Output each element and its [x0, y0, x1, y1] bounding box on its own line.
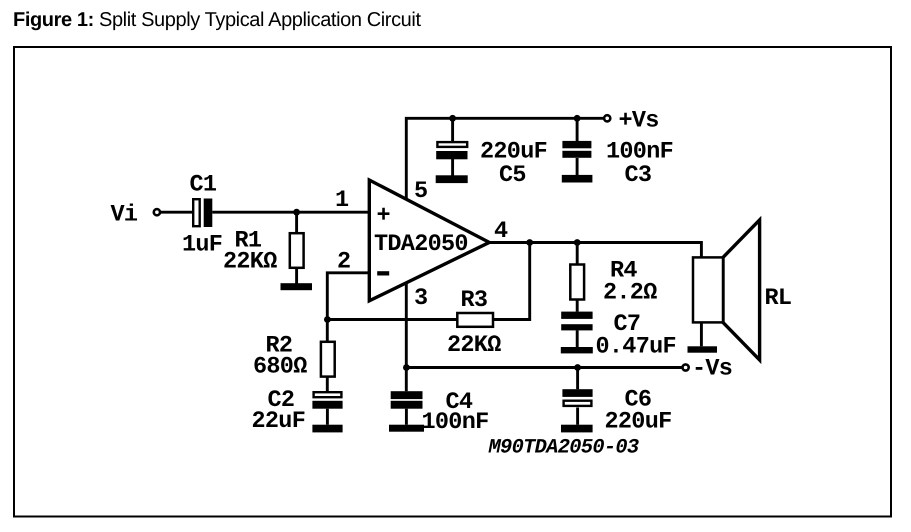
- wire R1 leads: [295, 212, 298, 283]
- svg-text:Figure 1: Split Supply Typical: Figure 1: Split Supply Typical Applicati…: [13, 9, 421, 31]
- svg-text:M90TDA2050-03: M90TDA2050-03: [488, 437, 639, 460]
- svg-text:3: 3: [414, 285, 427, 312]
- junction feedback node A: [324, 316, 331, 323]
- wire R4 leads: [576, 243, 579, 348]
- svg-text:R3: R3: [461, 287, 488, 314]
- -Vs rail: [406, 366, 682, 369]
- ground below C6: [561, 425, 593, 433]
- wire speaker to ground: [700, 322, 703, 346]
- capacitor C1: [193, 199, 212, 228]
- speaker RL driver box: [693, 257, 723, 322]
- resistor R3: [457, 313, 493, 327]
- svg-text:TDA2050: TDA2050: [374, 231, 468, 258]
- svg-text:2.2Ω: 2.2Ω: [603, 280, 657, 307]
- wire R2 leads: [326, 320, 329, 392]
- speaker RL horn: [723, 220, 760, 360]
- capacitor C7: [561, 312, 592, 331]
- label - input: [377, 271, 389, 275]
- wire input terminal to C1: [161, 211, 193, 214]
- junction input node: [293, 209, 300, 216]
- wire C6 leads: [576, 368, 579, 425]
- resistor R1: [290, 233, 304, 268]
- wire C3 leads: [576, 118, 579, 175]
- svg-text:220uF: 220uF: [605, 409, 672, 436]
- resistor R4: [570, 265, 584, 300]
- junction R4 tap on output: [574, 239, 581, 246]
- svg-text:C3: C3: [625, 162, 652, 189]
- ground below C4: [389, 425, 424, 432]
- wire R3 to output node: [493, 243, 530, 320]
- capacitor C4: [391, 391, 423, 408]
- wire pin 5 to +Vs rail: [406, 118, 604, 199]
- svg-text:RL: RL: [765, 285, 792, 312]
- svg-text:Vi: Vi: [111, 202, 138, 229]
- ground below C3: [562, 175, 593, 183]
- terminal +Vs: [604, 115, 610, 121]
- svg-text:680Ω: 680Ω: [253, 354, 307, 381]
- svg-text:C5: C5: [499, 162, 526, 189]
- wire output from op-amp to speaker: [488, 243, 701, 258]
- capacitor C5: [436, 142, 467, 159]
- wire C2 to ground: [326, 409, 329, 425]
- wire pin 3 down to -Vs rail and C4: [405, 283, 408, 391]
- svg-text:4: 4: [494, 218, 508, 245]
- junction C4 on -Vs rail: [403, 364, 410, 371]
- wire C5 leads: [451, 118, 454, 175]
- capacitor C3: [562, 141, 591, 158]
- junction C6 on -Vs rail: [574, 364, 581, 371]
- svg-text:0.47uF: 0.47uF: [596, 334, 676, 361]
- ground below speaker: [688, 346, 718, 352]
- ground below R1: [281, 283, 313, 290]
- capacitor C6: [562, 389, 592, 406]
- svg-text:1: 1: [335, 187, 349, 214]
- ground below C5: [436, 175, 468, 183]
- svg-text:C1: C1: [190, 172, 217, 199]
- resistor R2: [321, 342, 335, 377]
- svg-text:+Vs: +Vs: [619, 108, 659, 135]
- svg-text:5: 5: [414, 178, 427, 205]
- svg-text:-Vs: -Vs: [692, 356, 732, 383]
- svg-text:22uF: 22uF: [252, 408, 306, 435]
- ground below C7: [561, 347, 593, 353]
- svg-text:22KΩ: 22KΩ: [223, 249, 277, 276]
- ground below C2: [312, 425, 342, 433]
- junction R3 tap on output: [526, 239, 533, 246]
- terminal -Vs: [683, 364, 689, 370]
- junction C3 on +Vs rail: [574, 115, 581, 122]
- junction C5 on +Vs rail: [449, 115, 456, 122]
- capacitor C2: [312, 392, 342, 408]
- input terminal Vi: [154, 209, 160, 215]
- wire pin 2 to feedback node: [327, 273, 368, 320]
- op-amp U1 TDA2050: [369, 180, 489, 301]
- svg-text:1uF: 1uF: [182, 232, 222, 259]
- svg-text:22KΩ: 22KΩ: [447, 332, 501, 359]
- svg-text:100nF: 100nF: [422, 409, 489, 436]
- wire C4 to ground: [405, 409, 408, 425]
- wire C1 to pin 1: [212, 211, 368, 214]
- wire node A to R3: [327, 318, 457, 321]
- svg-text:+: +: [377, 203, 390, 230]
